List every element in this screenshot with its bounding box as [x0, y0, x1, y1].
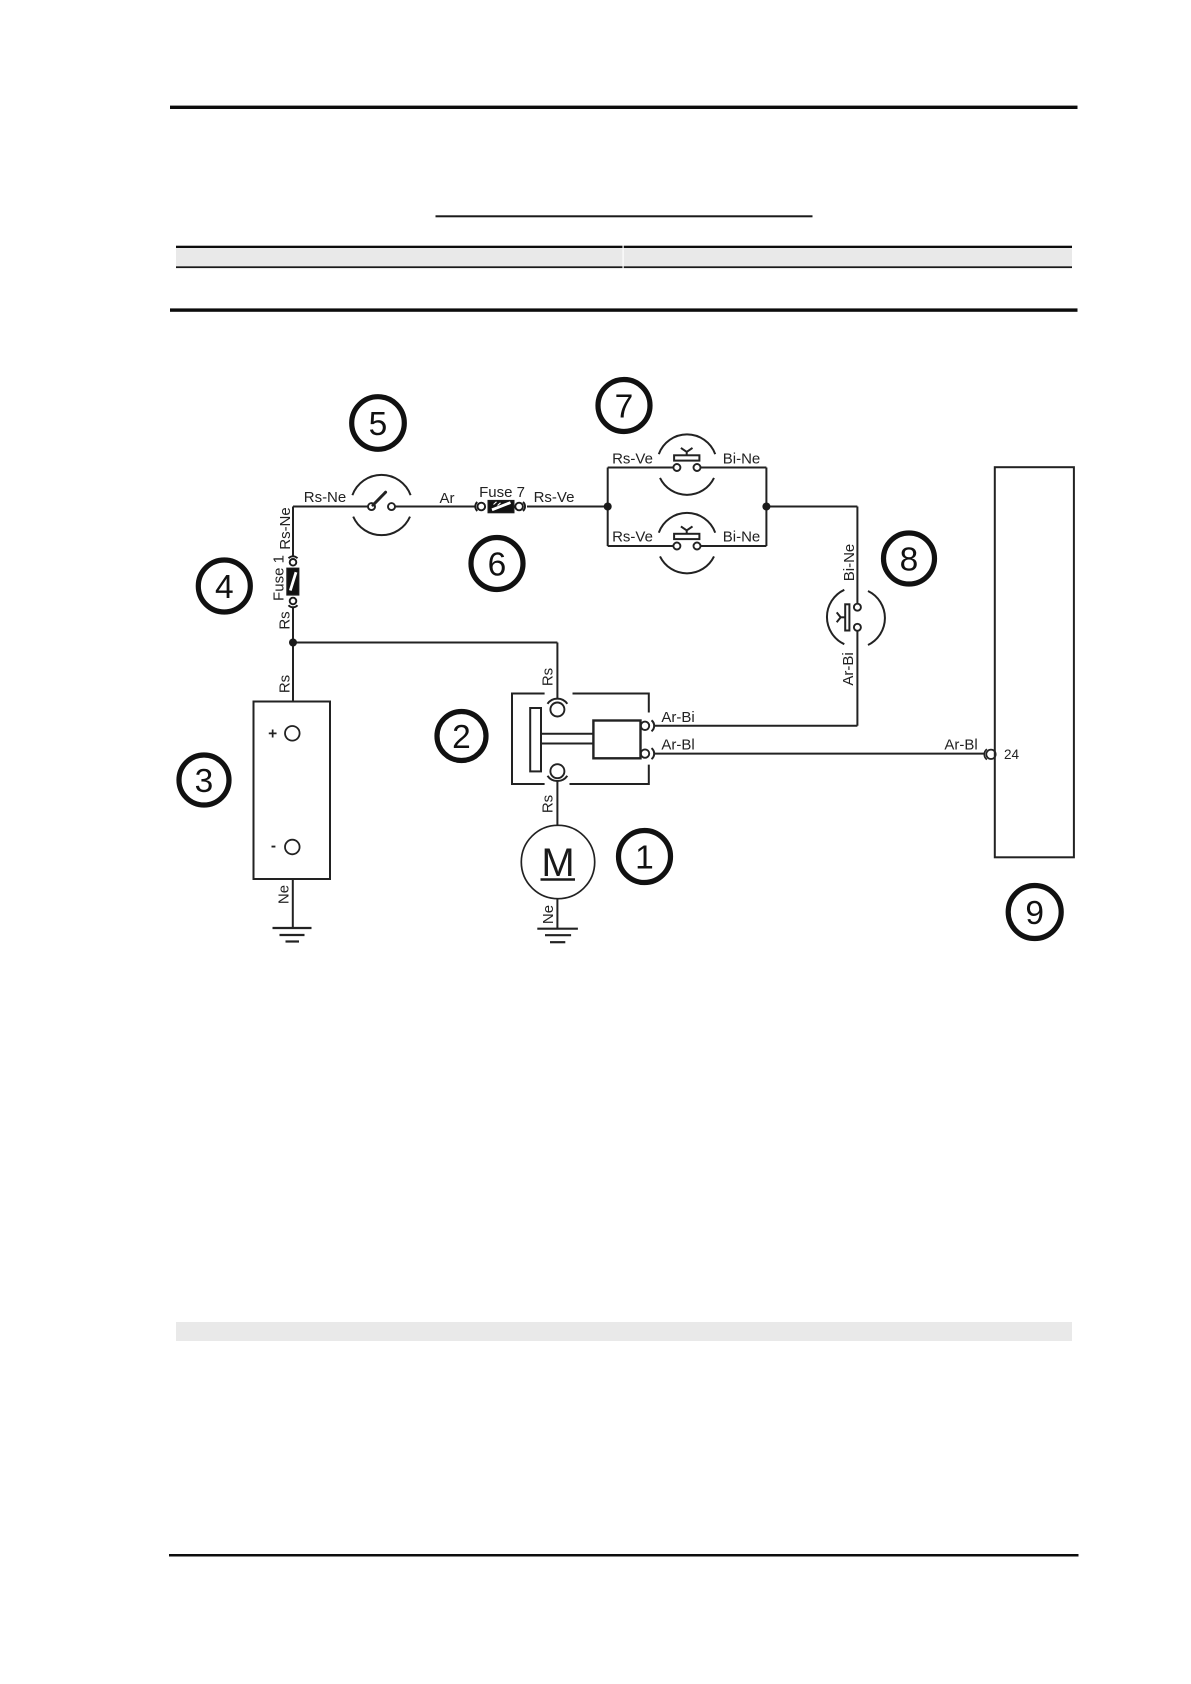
svg-text:Fuse 7: Fuse 7 — [479, 484, 525, 501]
svg-text:-: - — [271, 838, 276, 855]
svg-text:Rs: Rs — [277, 611, 294, 629]
svg-text:Rs-Ve: Rs-Ve — [534, 489, 575, 506]
svg-text:24: 24 — [1004, 747, 1020, 762]
svg-text:Ne: Ne — [540, 905, 557, 924]
svg-text:2: 2 — [452, 719, 471, 756]
svg-text:3: 3 — [195, 763, 214, 800]
svg-text:Rs: Rs — [540, 668, 557, 686]
svg-text:+: + — [268, 725, 277, 742]
svg-text:9: 9 — [1025, 895, 1044, 932]
svg-text:Ar-Bl: Ar-Bl — [661, 737, 694, 754]
svg-text:Bi-Ne: Bi-Ne — [723, 529, 761, 546]
svg-text:Ar-Bi: Ar-Bi — [661, 709, 694, 726]
svg-text:Rs-Ne: Rs-Ne — [304, 489, 347, 506]
svg-text:Bi-Ne: Bi-Ne — [841, 544, 858, 582]
svg-text:1: 1 — [635, 840, 654, 877]
svg-text:7: 7 — [615, 389, 634, 426]
svg-text:Ne: Ne — [276, 885, 293, 904]
svg-text:Ar: Ar — [440, 490, 455, 507]
svg-text:Rs-Ve: Rs-Ve — [612, 529, 653, 546]
svg-text:Rs-Ne: Rs-Ne — [277, 507, 294, 550]
svg-text:4: 4 — [215, 569, 234, 606]
svg-text:Bi-Ne: Bi-Ne — [723, 451, 761, 468]
svg-text:Fuse 1: Fuse 1 — [270, 555, 287, 601]
svg-text:5: 5 — [369, 406, 388, 443]
svg-text:Rs: Rs — [540, 795, 557, 813]
svg-text:Rs: Rs — [277, 675, 294, 693]
svg-text:8: 8 — [900, 542, 919, 579]
svg-text:Ar-Bl: Ar-Bl — [944, 737, 977, 754]
svg-text:6: 6 — [488, 547, 507, 584]
svg-text:Ar-Bi: Ar-Bi — [840, 652, 857, 685]
svg-text:Rs-Ve: Rs-Ve — [612, 451, 653, 468]
